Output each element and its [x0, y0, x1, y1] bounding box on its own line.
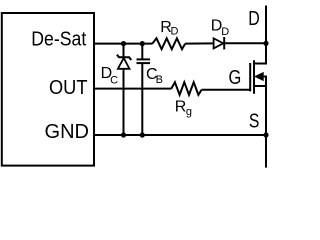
wire RD to diode DD	[185, 42, 213, 44]
zener diode DC triangle	[118, 58, 130, 69]
wire DC branch lower	[123, 69, 125, 135]
svg-text:D: D	[171, 25, 179, 37]
MOSFET body arrow	[255, 73, 263, 81]
zener diode DC cathode bar	[117, 55, 131, 60]
junction dot DC bottom	[121, 132, 126, 137]
junction dot source node	[263, 132, 268, 137]
junction dot CB top	[140, 41, 145, 46]
junction dot DC top	[121, 41, 126, 46]
diode DD triangle	[214, 38, 224, 48]
wire DC branch upper	[123, 44, 125, 57]
svg-text:C: C	[110, 75, 118, 87]
svg-text:D: D	[221, 26, 229, 38]
svg-text:B: B	[156, 74, 163, 86]
resistor Rg zigzag	[171, 82, 201, 95]
svg-text:OUT: OUT	[49, 77, 88, 99]
MOSFET channel bar	[253, 60, 255, 94]
svg-text:D: D	[248, 8, 260, 30]
MOSFET gate bar	[249, 63, 251, 91]
wire Rg to gate	[202, 89, 251, 91]
wire OUT net (box to resistor Rg)	[94, 88, 172, 90]
wire drain vertical	[254, 6, 266, 64]
wire GND net	[94, 134, 266, 136]
svg-text:g: g	[186, 106, 192, 118]
gate driver IC box	[2, 13, 94, 166]
diode DD cathode bar	[223, 37, 225, 49]
svg-text:De-Sat: De-Sat	[31, 28, 86, 50]
wire DD to drain node	[224, 42, 266, 44]
capacitor CB bottom plate	[137, 62, 151, 64]
svg-text:GND: GND	[45, 121, 90, 143]
wire CB branch upper	[141, 44, 143, 60]
svg-text:G: G	[229, 67, 242, 89]
svg-text:S: S	[249, 111, 260, 133]
MOSFET drain stub	[254, 63, 266, 65]
wire source vertical	[265, 77, 267, 168]
svg-text:R: R	[175, 99, 187, 116]
junction dot CB bottom	[140, 132, 145, 137]
wire De-Sat net (box to resistor RD)	[94, 43, 153, 45]
junction dot drain node	[263, 41, 268, 46]
resistor RD zigzag	[152, 38, 185, 49]
MOSFET source stub	[254, 85, 267, 87]
capacitor CB top plate	[137, 58, 151, 60]
wire CB branch lower	[141, 63, 143, 135]
